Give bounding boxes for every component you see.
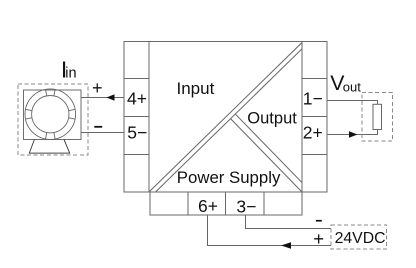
svg-text:Input: Input xyxy=(177,79,215,98)
svg-text:+: + xyxy=(92,78,103,98)
svg-text:Output: Output xyxy=(247,109,297,127)
svg-text:3−: 3− xyxy=(236,196,256,216)
svg-text:out: out xyxy=(343,80,361,95)
svg-text:5−: 5− xyxy=(127,122,147,142)
svg-text:in: in xyxy=(65,65,76,81)
svg-text:6+: 6+ xyxy=(198,196,218,216)
svg-text:4+: 4+ xyxy=(127,89,147,109)
svg-text:2+: 2+ xyxy=(303,123,323,143)
svg-text:1−: 1− xyxy=(303,89,323,109)
svg-text:Power Supply: Power Supply xyxy=(177,168,281,187)
svg-text:24VDC: 24VDC xyxy=(335,230,386,247)
